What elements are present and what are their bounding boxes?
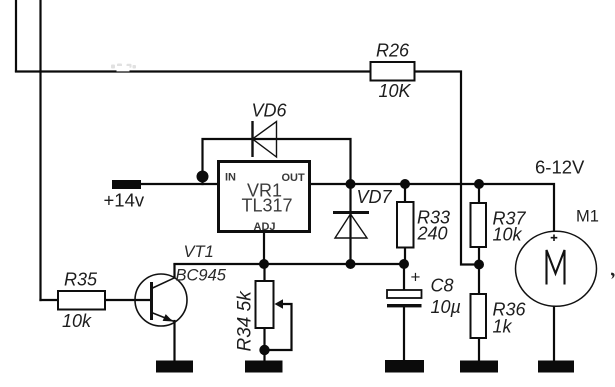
svg-text:6-12V: 6-12V — [535, 157, 585, 178]
svg-text:C8: C8 — [431, 276, 454, 296]
svg-text:M1: M1 — [576, 208, 599, 226]
svg-text:10K: 10K — [379, 81, 412, 101]
svg-text:VD7: VD7 — [357, 187, 393, 207]
svg-text:TL317: TL317 — [242, 196, 293, 216]
svg-text:1k: 1k — [493, 317, 513, 337]
svg-text:OUT: OUT — [282, 172, 306, 184]
svg-text:10k: 10k — [493, 225, 523, 245]
svg-text:240: 240 — [417, 224, 448, 244]
svg-text:R34 5k: R34 5k — [235, 290, 256, 352]
svg-text:VD6: VD6 — [252, 101, 288, 121]
svg-text:BC945: BC945 — [176, 267, 227, 285]
svg-text:R35: R35 — [64, 270, 98, 290]
svg-text:+: + — [411, 268, 421, 287]
svg-text:10k: 10k — [62, 311, 92, 331]
svg-text:+14v: +14v — [104, 190, 145, 211]
svg-text:ADJ: ADJ — [254, 221, 276, 233]
svg-text:R26: R26 — [376, 41, 410, 61]
svg-text:10µ: 10µ — [431, 297, 461, 317]
svg-text:VT1: VT1 — [184, 243, 214, 261]
svg-text:IN: IN — [225, 172, 236, 184]
